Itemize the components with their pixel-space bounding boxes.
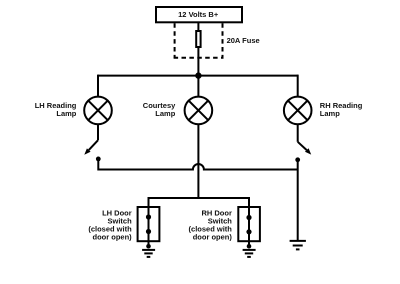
svg-text:12 Volts B+: 12 Volts B+ bbox=[178, 10, 219, 19]
svg-text:Lamp: Lamp bbox=[155, 109, 175, 118]
svg-text:20A Fuse: 20A Fuse bbox=[227, 36, 260, 45]
svg-text:Lamp: Lamp bbox=[56, 109, 76, 118]
svg-text:door open): door open) bbox=[193, 232, 233, 241]
svg-text:door open): door open) bbox=[93, 232, 133, 241]
svg-text:Lamp: Lamp bbox=[320, 109, 340, 118]
